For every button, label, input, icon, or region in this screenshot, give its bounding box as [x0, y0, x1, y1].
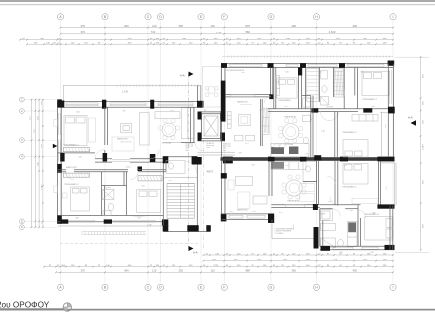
- middle apt right balcony strip: [380, 112, 388, 157]
- svg-text:ΥΠΝΟΔΩΜΑΤΙΟ 3: ΥΠΝΟΔΩΜΑΤΙΟ 3: [364, 213, 379, 216]
- svg-text:A-A: A-A: [408, 116, 413, 120]
- right balcony: [381, 163, 396, 206]
- svg-text:ΚΟΥΖΙΝΑ: ΚΟΥΖΙΝΑ: [162, 142, 172, 145]
- bedroom 1 bed: [64, 115, 96, 145]
- svg-text:370: 370: [137, 217, 140, 219]
- wall bedroom1/living: [105, 107, 108, 153]
- annotation block 1: [186, 143, 194, 152]
- svg-text:710: 710: [151, 30, 156, 34]
- corridor wall column 2: [221, 214, 227, 222]
- elevator column bottom-right: [221, 133, 226, 141]
- left row grid bubbles 1-6: [20, 97, 58, 229]
- middle apt kitchen counters: [271, 147, 284, 154]
- column corridor master corner: [138, 167, 143, 172]
- section marker left: [53, 144, 58, 148]
- svg-text:1,080: 1,080: [422, 144, 424, 150]
- hall wall above stair: [163, 142, 181, 144]
- lower bedroom3 bed: [365, 217, 393, 240]
- svg-text:355: 355: [179, 24, 184, 28]
- svg-text:245: 245: [114, 185, 117, 187]
- svg-text:ΛΟΥΤΡΟ: ΛΟΥΤΡΟ: [326, 107, 334, 109]
- party wall column 3: [314, 155, 321, 160]
- svg-text:360: 360: [292, 269, 297, 273]
- svg-text:370: 370: [251, 165, 254, 167]
- lower apt dining table: [286, 180, 302, 196]
- lower apt kitchen counters: [271, 162, 284, 169]
- landing line: [163, 177, 197, 179]
- sheet top border line: [0, 0, 435, 2]
- roof ledge railing hatch: [228, 55, 390, 57]
- svg-text:A-A: A-A: [180, 74, 185, 78]
- party wall band: [221, 157, 393, 161]
- bedroom3 door arc: [358, 210, 366, 218]
- svg-text:F: F: [223, 286, 225, 290]
- bottom dimension row 2: [203, 260, 394, 262]
- svg-text:ΥΠΝΟΔΩΜΑΤΙΟ 1: ΥΠΝΟΔΩΜΑΤΙΟ 1: [63, 143, 79, 146]
- closet row below hall wall: [352, 115, 378, 122]
- svg-text:988: 988: [245, 269, 250, 273]
- wall master bedroom right: [163, 159, 166, 216]
- svg-text:370: 370: [245, 143, 248, 145]
- lower apt bottom wall left: [221, 214, 274, 220]
- left apartment outer left wall: [58, 102, 62, 224]
- title text 2ou OROFOU: [0, 301, 63, 310]
- wc in stair core: [166, 161, 185, 174]
- svg-text:245: 245: [305, 154, 308, 156]
- tall bathroom fixtures: [303, 98, 311, 144]
- stair column bottom-right: [187, 225, 198, 231]
- svg-text:1,640: 1,640: [329, 30, 336, 34]
- top grid bubbles A-I: [57, 14, 396, 20]
- svg-text:ΥΠΝΟΔΩΜΑΤΙΟ 1: ΥΠΝΟΔΩΜΑΤΙΟ 1: [342, 131, 357, 134]
- middle apt bedroom right wall: [299, 67, 302, 108]
- lower apt veranda: [272, 220, 319, 239]
- corridor lower wall (bedrooms top): [58, 170, 166, 172]
- bedroom 2 wardrobe: [63, 173, 89, 177]
- lower apt bedroom1 bed: [343, 163, 368, 184]
- left wall column middle apt: [221, 81, 226, 122]
- top wall column I corner: [388, 61, 395, 66]
- svg-text:I: I: [393, 15, 394, 19]
- bedroom1 south wall: [58, 152, 95, 154]
- left apartment living room furniture: [112, 113, 149, 151]
- svg-text:370: 370: [141, 186, 144, 188]
- svg-text:110: 110: [152, 269, 157, 273]
- svg-text:360: 360: [292, 24, 297, 28]
- section marker right: [408, 116, 416, 126]
- bedroom1 dresser: [352, 199, 378, 204]
- column at living corner: [103, 153, 108, 162]
- vertical grid lines: [61, 21, 394, 283]
- svg-text:300: 300: [75, 218, 78, 220]
- bottom wall column right: [385, 245, 395, 250]
- top wall windows middle: [229, 65, 384, 67]
- svg-text:90: 90: [310, 119, 312, 121]
- bedroom 2 bed: [71, 187, 90, 211]
- bedroom3 left wall: [358, 205, 361, 247]
- dashed grid line at E extension: [202, 140, 204, 250]
- svg-text:430: 430: [353, 269, 358, 273]
- left wall column row1: [57, 99, 62, 107]
- left apartment top wall: [58, 102, 204, 108]
- svg-text:300: 300: [318, 72, 321, 74]
- hall wall column 1: [312, 108, 319, 112]
- veranda railing hatch: [117, 84, 198, 86]
- bottom wall column 2: [104, 219, 112, 223]
- svg-text:430: 430: [353, 24, 358, 28]
- svg-text:140: 140: [285, 72, 288, 74]
- svg-text:370: 370: [122, 111, 125, 113]
- bedroom2 side table: [63, 193, 68, 198]
- svg-text:ΔΙΑΔΡΟΜΟΣ: ΔΙΑΔΡΟΜΟΣ: [66, 166, 78, 169]
- top dimension row 2: [60, 33, 394, 35]
- bottom dimension row 4: [55, 271, 394, 273]
- top wall column A: [58, 101, 65, 108]
- svg-text:370: 370: [238, 153, 241, 155]
- elevator column top-right: [221, 112, 226, 120]
- bedroom closet strip: [276, 76, 280, 96]
- top wall column F: [221, 63, 227, 68]
- left apartment kitchen table: [162, 123, 176, 137]
- svg-text:1,40: 1,40: [385, 125, 387, 129]
- left apartment veranda top edge: [63, 86, 201, 102]
- column below elevator left: [192, 157, 202, 165]
- bottom balcony railing hatch: [82, 231, 146, 234]
- top wall column C: [150, 100, 154, 109]
- section line A-A vertical: [180, 72, 198, 255]
- bedroom door arc middle apt: [264, 97, 271, 104]
- left wall windows: [54, 113, 61, 193]
- living room south wall: [95, 159, 166, 162]
- left bathroom fixtures: [103, 190, 114, 216]
- bottom grid bubbles A-I: [57, 284, 396, 290]
- svg-text:95: 95: [204, 110, 206, 112]
- svg-text:ΥΠΝΟΔΩΜΑΤΙΟ: ΥΠΝΟΔΩΜΑΤΙΟ: [278, 99, 292, 102]
- right vertical dimension line: [420, 57, 422, 250]
- left apartment right wall: [181, 107, 195, 142]
- svg-text:370: 370: [81, 24, 86, 28]
- top dimension row 3: [19, 39, 394, 41]
- top dimension row 4: [26, 43, 394, 45]
- interior dimension texts: [75, 63, 375, 254]
- master bedroom bed: [137, 190, 161, 213]
- right wing closet B hatched: [334, 69, 343, 98]
- middle apt living room furniture: [227, 111, 254, 140]
- lower apt kitchen divider: [269, 161, 272, 196]
- bottom dimension row 1: [203, 254, 394, 256]
- svg-text:500: 500: [76, 112, 79, 114]
- svg-text:370: 370: [343, 165, 346, 167]
- svg-text:1,140: 1,140: [122, 91, 129, 94]
- svg-text:I: I: [393, 286, 394, 290]
- open veranda table sketch: [206, 86, 218, 96]
- left wall column row5: [57, 215, 62, 224]
- svg-text:LIVING ROOM: LIVING ROOM: [240, 104, 252, 106]
- column living sw corner: [60, 153, 64, 162]
- bedroom1 south wardrobe: [63, 148, 89, 152]
- svg-text:1,140: 1,140: [41, 184, 43, 190]
- svg-text:355: 355: [179, 269, 184, 273]
- middle apt dining table: [283, 124, 299, 140]
- dashed property line bottom left: [60, 243, 200, 245]
- left apartment bottom wall: [58, 216, 164, 222]
- svg-text:2,733: 2,733: [216, 32, 222, 34]
- hall door arcs right wing: [321, 112, 339, 121]
- middle apt right wall: [388, 64, 393, 157]
- corridor wall column 1: [221, 173, 227, 178]
- svg-text:245: 245: [252, 211, 255, 213]
- middle apt bedroom1 left wall: [335, 112, 338, 157]
- lower right outer wall: [390, 205, 393, 250]
- party wall column 4: [340, 157, 348, 162]
- svg-text:F: F: [223, 15, 225, 19]
- svg-text:360: 360: [360, 72, 363, 74]
- top wall column D: [197, 101, 204, 108]
- veranda right wall black: [314, 227, 319, 249]
- svg-text:1,40: 1,40: [386, 187, 388, 191]
- black wall bedroom3 top: [377, 204, 394, 208]
- svg-text:G: G: [270, 15, 273, 19]
- title scale circle: [63, 303, 71, 311]
- elevator column bottom-left: [198, 133, 202, 141]
- svg-text:1,140: 1,140: [126, 167, 131, 169]
- beam lines below elevator: [198, 152, 236, 155]
- svg-text:840: 840: [124, 24, 129, 28]
- svg-text:A-A: A-A: [193, 251, 198, 255]
- svg-text:560: 560: [245, 30, 250, 34]
- svg-text:110: 110: [211, 269, 216, 273]
- veranda note text: [275, 228, 296, 235]
- party wall column end: [377, 157, 394, 162]
- svg-text:140: 140: [349, 210, 352, 212]
- svg-text:ΠΛΥΝΤ.: ΠΛΥΝΤ.: [321, 214, 327, 216]
- svg-text:ΤΡΑΠΕΖΑΡΙΑ: ΤΡΑΠΕΖΑΡΙΑ: [287, 200, 299, 203]
- bottom wall column 1: [61, 219, 69, 223]
- svg-text:110: 110: [211, 24, 216, 28]
- storage shelves: [300, 184, 315, 202]
- annotation block 2: [207, 142, 215, 149]
- svg-text:1,40: 1,40: [321, 131, 325, 133]
- stair column top-left: [163, 156, 169, 163]
- right wing bath fixtures: [321, 71, 329, 106]
- right wall window: [390, 70, 392, 104]
- svg-text:110: 110: [152, 24, 157, 28]
- right wall column mid: [388, 107, 395, 114]
- master bedroom wardrobe: [138, 176, 162, 181]
- laundry room: [321, 210, 333, 221]
- svg-text:370: 370: [229, 211, 232, 213]
- lower closet column: [347, 221, 357, 246]
- sheet bottom border line: [0, 309, 435, 311]
- svg-text:300: 300: [371, 106, 374, 108]
- corridor wall right of stair core: [222, 161, 226, 214]
- top wall column H2: [339, 63, 345, 68]
- svg-text:370: 370: [81, 269, 86, 273]
- bottom wall column left: [321, 246, 331, 251]
- veranda corner wall line: [196, 86, 198, 102]
- svg-text:140: 140: [328, 201, 331, 203]
- wall bedroom2/bath: [102, 172, 127, 216]
- svg-text:245: 245: [284, 106, 287, 108]
- svg-text:ΤΡΑΠΕΖΑΡΙΑ: ΤΡΑΠΕΖΑΡΙΑ: [284, 116, 296, 119]
- stair core outline: [163, 157, 210, 232]
- middle apt bedroom1 bed: [343, 140, 368, 158]
- svg-text:875: 875: [245, 24, 250, 28]
- top wall column G2: [300, 63, 306, 68]
- stair column bottom-left: [163, 225, 169, 231]
- lower apt wc: [303, 162, 317, 182]
- lower apt right wall upper: [379, 161, 381, 205]
- bedroom left wall middle apt: [274, 67, 276, 108]
- svg-text:500: 500: [78, 157, 81, 159]
- middle apt veranda wall: [225, 95, 270, 97]
- lower apt living room furniture: [228, 177, 267, 209]
- veranda corner wall vertical: [270, 67, 272, 94]
- sheet inner top line: [0, 4, 435, 6]
- svg-text:ΚΟΥΖΙΝΑ: ΚΟΥΖΙΝΑ: [285, 143, 294, 146]
- lower apt south wall right part: [271, 205, 319, 208]
- middle apt hall wall: [268, 109, 393, 112]
- lower apt bedroom1 walls: [335, 161, 338, 205]
- svg-text:23.5: 23.5: [229, 63, 233, 65]
- svg-text:ΚΑΘΙΣΤΙΚΟ: ΚΑΘΙΣΤΙΚΟ: [237, 100, 248, 103]
- left vertical dimension lines: [32, 99, 43, 228]
- svg-text:4Θ73: 4Θ73: [207, 170, 214, 174]
- lower bath fixtures: [321, 223, 344, 247]
- right wing closet A hatched: [307, 69, 319, 102]
- party wall column 1: [268, 157, 275, 162]
- svg-text:360: 360: [372, 213, 375, 215]
- svg-text:ΥΠΝΟΔΩΜΑΤΙΟ 2: ΥΠΝΟΔΩΜΑΤΙΟ 2: [64, 183, 79, 186]
- right dim extension lines: [395, 56, 429, 58]
- svg-text:ΥΠΝΟΔΩΜΑΤΙΟ 2: ΥΠΝΟΔΩΜΑΤΙΟ 2: [362, 98, 377, 101]
- svg-text:370: 370: [170, 110, 173, 112]
- laundry-bath left wall: [320, 209, 323, 247]
- annotation block 3: [223, 143, 231, 152]
- party wall column 2: [300, 157, 307, 162]
- elevator shaft top wall: [198, 112, 226, 141]
- svg-text:ΛΟΥΤΡΟ: ΛΟΥΤΡΟ: [104, 188, 112, 190]
- wardrobe column living room: [262, 109, 269, 134]
- lower apt bottom wall right: [320, 246, 395, 250]
- lower apt wc wall: [303, 161, 319, 205]
- right wing divider walls: [305, 67, 357, 108]
- column living south wall east: [150, 154, 156, 162]
- top dimension row 1: [60, 27, 394, 29]
- bottom wall windows: [70, 220, 156, 222]
- lower apt middle wall y205: [320, 205, 361, 209]
- svg-text:2ου ΟΡΟΦΟΥ: 2ου ΟΡΟΦΟΥ: [0, 301, 50, 310]
- elevator car and cross: [204, 116, 218, 136]
- column at living step: [270, 214, 274, 222]
- window in living south wall: [112, 160, 130, 162]
- svg-text:140: 140: [370, 252, 373, 254]
- svg-text:ΚΑΘΙΣΤΙΚΟ: ΚΑΘΙΣΤΙΚΟ: [237, 209, 248, 212]
- living/dining divider middle apt: [260, 99, 262, 146]
- bedroom2 top right bed: [362, 71, 389, 95]
- svg-text:195: 195: [285, 165, 288, 167]
- stair entrance door arc: [186, 162, 197, 173]
- tall bathroom middle apt: [302, 96, 313, 158]
- column right of stair: [206, 225, 211, 231]
- svg-text:G: G: [270, 286, 273, 290]
- stair treads: [167, 184, 195, 219]
- hall wall column 2: [363, 108, 372, 112]
- open veranda outline: [203, 67, 222, 108]
- wardrobe diagonal hatches: [262, 70, 344, 133]
- window in south wall: [285, 205, 304, 207]
- middle apartment left wall: [222, 67, 226, 157]
- top wall column B: [102, 100, 106, 109]
- middle apartment roof ledge line: [222, 56, 393, 58]
- svg-text:370: 370: [241, 72, 244, 74]
- lower apt corridor arcs: [327, 176, 340, 217]
- elevator column top-left: [198, 112, 202, 120]
- svg-text:LIVING ROOM: LIVING ROOM: [120, 141, 132, 143]
- column veranda wall end: [269, 94, 273, 99]
- bottom wall column lower: [268, 214, 274, 223]
- middle apt bedroom bed: [277, 78, 297, 98]
- top wall windows: [66, 103, 193, 106]
- top wall column mid: [268, 63, 274, 68]
- bottom dimension row 3 (finest full): [43, 266, 394, 268]
- svg-text:3,10: 3,10: [168, 180, 172, 182]
- column bedroom right wall: [298, 67, 302, 75]
- window in veranda wall: [230, 95, 254, 97]
- corridor door arcs: [66, 150, 159, 180]
- column south wall: [313, 204, 318, 210]
- entrance door arc left apartment: [195, 143, 203, 151]
- svg-text:360: 360: [339, 252, 342, 254]
- svg-text:ΥΠΝΟΔΩΜΑΤΙΟ 1: ΥΠΝΟΔΩΜΑΤΙΟ 1: [342, 186, 357, 189]
- stair column top-right: [192, 156, 198, 163]
- middle apartment top wall: [221, 64, 393, 68]
- svg-text:840: 840: [124, 269, 129, 273]
- svg-text:370: 370: [81, 30, 86, 34]
- bottom balcony edge: [58, 225, 169, 227]
- left wall column row3: [57, 164, 62, 173]
- svg-text:ΚΑΘΙΣΤΙΚΟ: ΚΑΘΙΣΤΙΚΟ: [117, 138, 128, 141]
- closet dark part: [348, 222, 356, 232]
- left apartment kitchen counters: [155, 108, 194, 139]
- column below elevator right: [223, 157, 233, 164]
- bottom wall column 3: [162, 219, 168, 225]
